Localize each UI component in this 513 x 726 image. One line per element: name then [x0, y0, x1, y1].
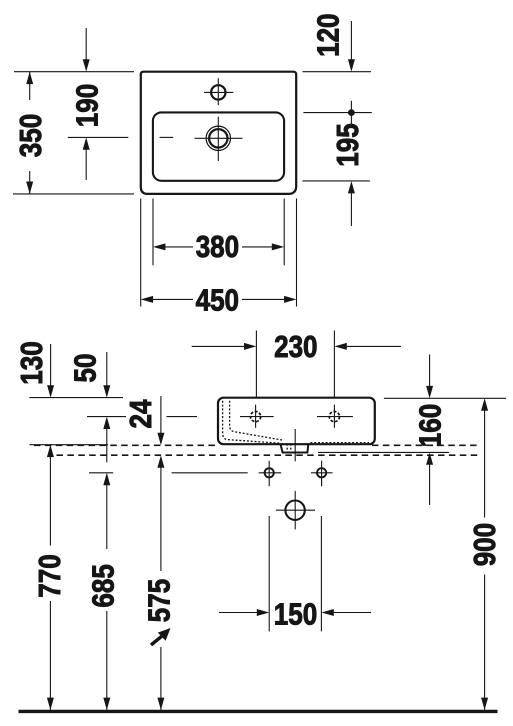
dim 900 arrowhead down at floor: [481, 698, 488, 710]
svg-text:120: 120: [312, 13, 347, 56]
svg-text:770: 770: [33, 554, 68, 597]
dim 685 upper shaft: [106, 485, 108, 549]
supply centre extension (y=472.8) seg1: [89, 472, 113, 474]
svg-text:350: 350: [14, 114, 49, 157]
extension line tap-hole level (y=416.6) seg2: [167, 416, 198, 418]
dim 130 shaft: [50, 344, 52, 386]
dim 900 lower shaft: [484, 575, 486, 711]
hidden bowl profile outer dotted: [223, 401, 280, 443]
svg-text:160: 160: [414, 404, 449, 447]
svg-text:685: 685: [86, 564, 121, 607]
dim 150 right arrowhead: [321, 609, 333, 616]
drain inner circle: [209, 129, 227, 147]
svg-text:190: 190: [70, 84, 105, 127]
dim 350 arrowhead up: [26, 72, 33, 84]
washbasin outer rim (plan): [141, 72, 296, 194]
supply connection left circle: [265, 468, 274, 477]
dim 380 right shaft: [242, 246, 272, 248]
dim 190 arrowhead up: [83, 137, 90, 149]
dim 685 arrowhead up: [103, 473, 110, 485]
faucet hole crosshair vertical: [217, 78, 219, 105]
extension line below basin far-right (450): [296, 199, 298, 307]
dim 900 upper shaft: [484, 410, 486, 517]
dashed reference line A (y=445.3) left: [34, 444, 218, 446]
drain centerline left segment 2: [160, 136, 174, 138]
dim 575 oblique arrow tail: [151, 635, 164, 645]
dim 50 shaft: [106, 352, 108, 386]
hidden drain pipe dotted left: [286, 444, 288, 452]
drain outlet box: [281, 444, 309, 452]
drain crosshair horizontal: [195, 137, 243, 139]
dim 160 lower shaft: [429, 464, 431, 505]
dim 685 arrowhead down at floor: [103, 698, 110, 710]
faucet hole circle: [211, 85, 225, 99]
dim 160 arrowhead down: [426, 386, 433, 398]
dim 50 arrowhead down: [103, 385, 110, 397]
washbasin body (front): [218, 398, 375, 445]
dim 50 lower shaft: [106, 428, 108, 462]
svg-text:230: 230: [274, 330, 317, 365]
supply connection right crosshair: [311, 461, 333, 486]
svg-text:380: 380: [196, 230, 239, 265]
dim 450 left shaft: [153, 298, 193, 300]
supply connection left crosshair: [259, 461, 282, 486]
trap connection circle: [285, 501, 304, 520]
tap hole right crosshair: [317, 405, 353, 428]
svg-text:50: 50: [68, 354, 103, 383]
dim 150 left arrowhead: [257, 609, 269, 616]
extension line top-right of elevation (y=398.3): [384, 397, 506, 399]
dim 24 arrowhead up: [157, 455, 164, 467]
dim 24 shaft: [160, 396, 162, 434]
solid extension underside left (y=444.7): [30, 444, 109, 446]
dim 190 shaft lower: [85, 149, 87, 180]
supply centre extension (y=472.8) seg2: [172, 472, 248, 474]
svg-text:130: 130: [15, 341, 50, 384]
tap reference line right (y=112.6): [303, 112, 371, 114]
dim 230 left arrowhead: [244, 343, 256, 350]
dim 120 arrowhead down: [348, 59, 355, 71]
dashed reference line B (y=455.2): [57, 454, 479, 456]
trap crosshair vertical: [294, 491, 296, 530]
dim 380 left shaft: [165, 246, 193, 248]
hidden bowl profile inner dotted: [230, 401, 282, 440]
tap hole right dashed circle: [329, 412, 339, 422]
dim 575 arrowhead down at floor: [157, 698, 164, 710]
extension line top right (y=71.6): [303, 71, 372, 73]
dim 230 right shaft: [346, 345, 401, 347]
dim 130 arrowhead down: [47, 385, 54, 397]
dim 195 arrowhead up: [348, 181, 355, 193]
dim 190 shaft upper: [85, 28, 87, 60]
dim 770 arrowhead up: [47, 445, 54, 457]
extension line tap-hole level (y=416.6) seg1: [87, 416, 126, 418]
tap reference point vertical tick: [350, 101, 352, 125]
dim 450 right shaft: [242, 298, 285, 300]
dim 230 extension line left: [255, 331, 257, 398]
dim 350 shaft upper: [29, 72, 31, 100]
dim 150 extension line right: [320, 516, 322, 631]
dim 120 shaft: [350, 21, 352, 60]
faucet hole crosshair horizontal: [204, 91, 233, 93]
dim 50 arrowhead up at 416.6: [103, 417, 110, 429]
dim 350 shaft lower: [29, 171, 31, 194]
dim 685 lower shaft: [106, 611, 108, 710]
supply connection right circle: [317, 468, 326, 477]
drain centerline left segment 1: [68, 136, 129, 138]
solid extension 160-bottom right (y=452.4): [318, 451, 449, 453]
drain outer circle: [206, 126, 230, 150]
svg-text:195: 195: [331, 123, 366, 166]
dim 450 right arrowhead: [284, 296, 296, 303]
inner bowl (plan): [153, 112, 284, 180]
extension line top-left of elevation (y=397.6): [29, 397, 123, 399]
dim 770 arrowhead down at floor: [47, 698, 54, 710]
dim 575 oblique arrow: [158, 628, 171, 641]
dim 575 upper shaft: [160, 467, 162, 571]
dim 190 arrowhead down: [83, 59, 90, 71]
drain crosshair vertical: [217, 117, 219, 161]
svg-text:150: 150: [274, 597, 317, 632]
extension line below basin far-left (450): [140, 199, 142, 307]
svg-text:24: 24: [124, 399, 159, 428]
drain centerline vertical: [294, 429, 296, 461]
dim 195 shaft: [350, 193, 352, 226]
dim 770 upper shaft: [49, 457, 51, 546]
dim 150 extension line left: [268, 516, 270, 631]
trap crosshair horizontal: [276, 509, 315, 511]
tap hole left dashed circle: [251, 412, 261, 422]
dim 770 lower shaft: [49, 601, 51, 710]
tap hole left crosshair: [240, 405, 274, 428]
dim 160 upper shaft: [429, 355, 431, 387]
dim 575 lower shaft: [160, 647, 162, 710]
dim 350 arrowhead down: [26, 182, 33, 194]
svg-text:900: 900: [468, 523, 503, 566]
dim 380 left arrowhead: [153, 243, 165, 250]
dim 900 arrowhead up: [481, 398, 488, 410]
dim 230 left shaft: [192, 345, 245, 347]
dim 380 right arrowhead: [272, 243, 284, 250]
extension line right of bowl bottom (y=180.9): [302, 180, 370, 182]
extension line bottom left (y=193.9): [13, 193, 134, 195]
svg-text:450: 450: [196, 284, 239, 319]
extension line below basin inner-right (380): [283, 199, 285, 266]
hidden drain pipe dotted right: [290, 444, 292, 452]
extension line top left (y=71.6): [14, 71, 134, 73]
dim 150 left shaft: [219, 612, 257, 614]
dashed reference line A (y=445.3) right: [372, 444, 478, 446]
floor line: [19, 710, 498, 713]
tap reference point dot: [348, 109, 355, 116]
hidden bowl bottom dotted right of drain: [310, 442, 369, 444]
dim 230 extension line right: [333, 331, 335, 398]
dim 24 arrowhead down: [157, 433, 164, 445]
dim 450 left arrowhead: [141, 296, 153, 303]
svg-text:575: 575: [143, 579, 178, 622]
extension line below basin inner-left (380): [152, 199, 154, 266]
dim 160 arrowhead up: [426, 452, 433, 464]
dim 230 right arrowhead: [334, 343, 346, 350]
dim 150 right shaft: [333, 612, 371, 614]
